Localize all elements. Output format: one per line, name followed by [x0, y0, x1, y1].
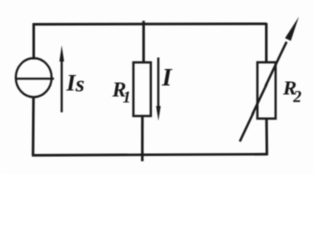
arrow through R2 [240, 17, 299, 142]
arrow I [156, 58, 161, 121]
svg-text:2: 2 [292, 87, 301, 106]
svg-text:1: 1 [123, 88, 131, 107]
wire right upper [265, 23, 268, 63]
arrow Is [59, 45, 64, 112]
wire right lower [265, 118, 268, 155]
wire bottom [32, 154, 268, 155]
wire left lower [32, 96, 35, 156]
svg-text:s: s [75, 72, 85, 97]
svg-text:I: I [161, 65, 173, 92]
current source Is [15, 58, 54, 97]
wire middle upper [142, 21, 145, 63]
resistor R1 [133, 62, 150, 116]
wire left upper [32, 23, 35, 59]
resistor R2 (variable) [257, 62, 275, 118]
wire top [33, 22, 267, 25]
wire middle lower [141, 116, 144, 162]
